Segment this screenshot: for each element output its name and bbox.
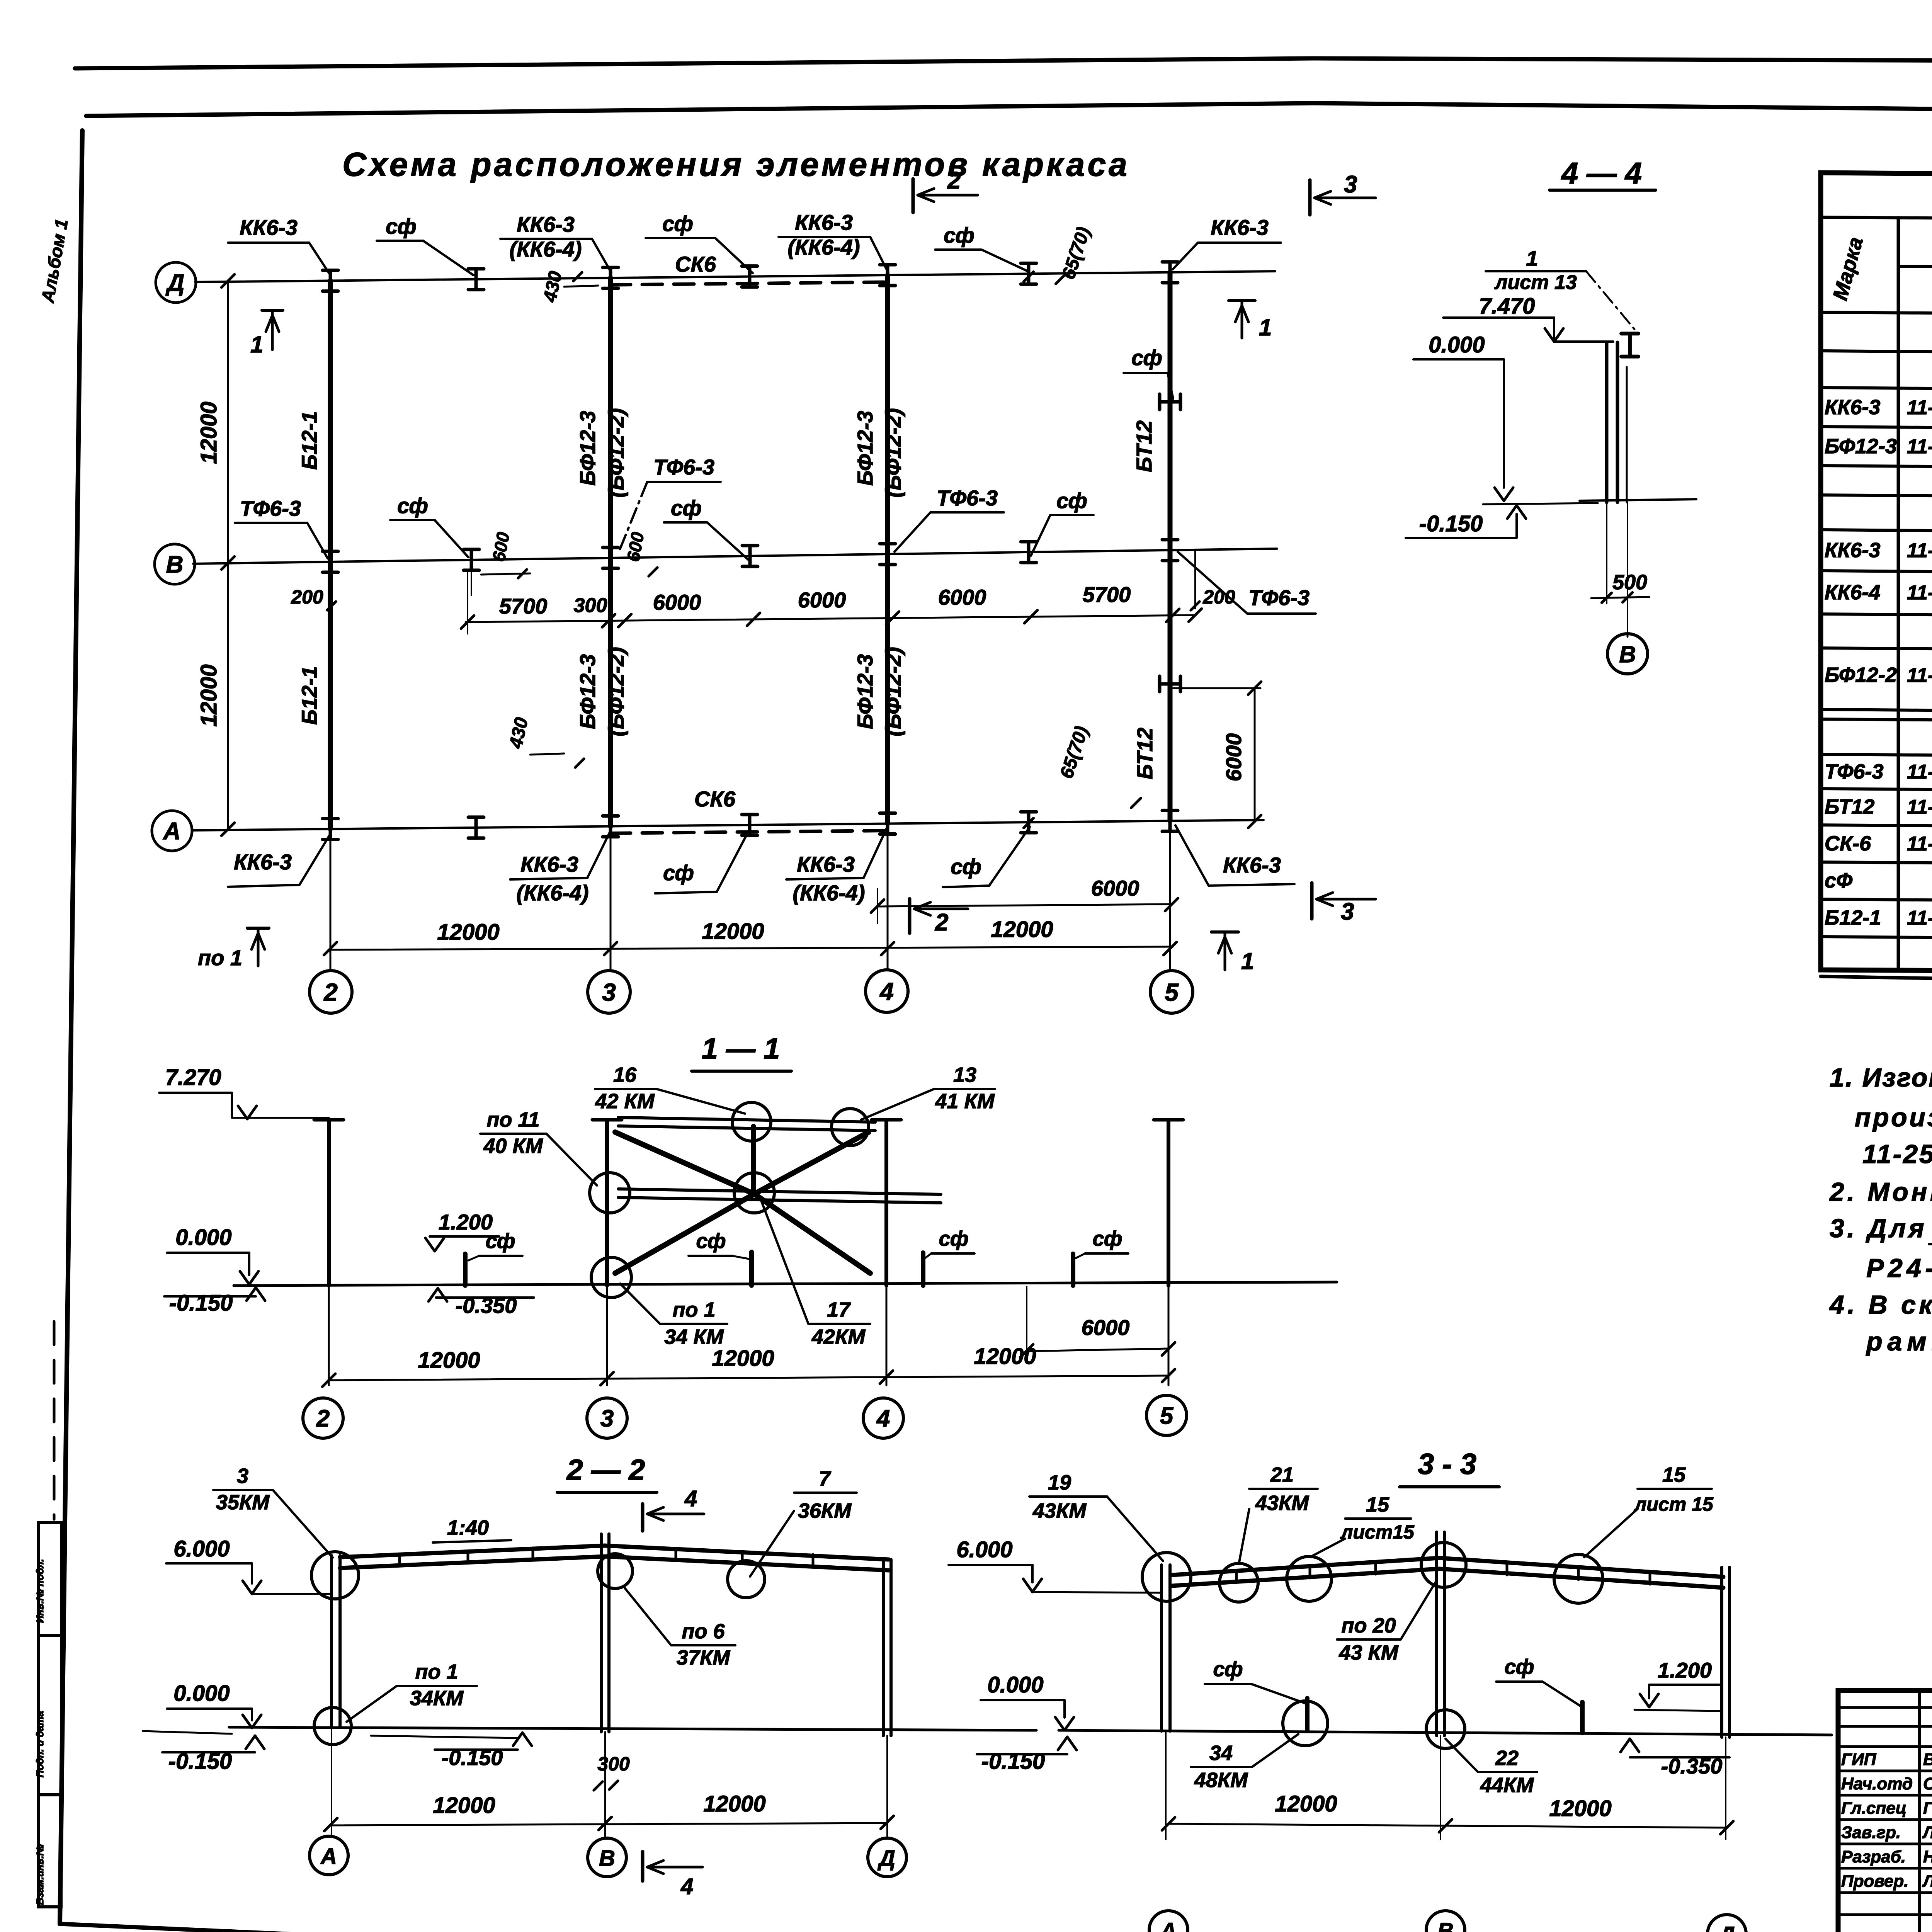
- column 4-4 (double line): [1605, 342, 1609, 502]
- svg-text:сф: сф: [696, 1230, 726, 1253]
- svg-text:сф: сф: [1131, 345, 1162, 370]
- svg-text:11-2537-28КМ: 11-2537-28КМ: [1907, 435, 1932, 458]
- dimension 12000x2 (2-2): [331, 1823, 887, 1825]
- svg-text:(КК6-4): (КК6-4): [509, 237, 582, 261]
- column Д (3-3): [1720, 1567, 1723, 1737]
- axis bubble Д (2-2): [868, 1838, 906, 1877]
- section mark 2 top: [912, 179, 915, 213]
- element table outer bottom edge: [1821, 976, 1932, 991]
- column bubble 5: [1150, 971, 1193, 1013]
- section mark 3 top: [1308, 180, 1312, 215]
- svg-text:сф: сф: [944, 223, 975, 247]
- svg-text:6000: 6000: [938, 585, 986, 609]
- svg-text:Р24- 1-6 -300, IV-снегового р: Р24- 1-6 -300, IV-снегового района-Р24-1…: [1866, 1253, 1932, 1283]
- axis bubble 5 (1-1): [1146, 1395, 1187, 1435]
- axis В line: [193, 549, 1277, 564]
- svg-text:300: 300: [597, 1753, 630, 1775]
- svg-text:34 КМ: 34 КМ: [664, 1325, 724, 1349]
- column 2 extension to dimension line: [330, 829, 332, 971]
- svg-text:В: В: [1619, 641, 1636, 667]
- axis Д bubble: [156, 262, 196, 303]
- svg-text:12000: 12000: [418, 1348, 480, 1373]
- section 1-1 column 4: [884, 1120, 888, 1286]
- svg-text:4. В скобках обозначены ма: 4. В скобках обозначены марки конструкци…: [1829, 1290, 1932, 1320]
- column 3 extension to dimension line: [610, 826, 612, 971]
- svg-text:(КК6-4): (КК6-4): [793, 881, 865, 905]
- svg-text:34: 34: [1209, 1742, 1233, 1765]
- section 1-1 column 5: [1167, 1120, 1170, 1286]
- stamp outer box: [1838, 1690, 1932, 1932]
- node circle top middle: [732, 1102, 771, 1141]
- axis bubble 3 (1-1): [587, 1398, 627, 1438]
- element table header mid rule: [1898, 266, 1932, 271]
- svg-text:сф: сф: [663, 861, 694, 885]
- svg-text:7.470: 7.470: [1479, 294, 1535, 319]
- braced bay middle beam: [618, 1189, 941, 1194]
- axis В bubble (4-4): [1607, 634, 1648, 674]
- svg-text:Лукьяненко: Лукьяненко: [1922, 1823, 1932, 1842]
- svg-text:1 — 1: 1 — 1: [702, 1032, 780, 1065]
- ground line (2-2): [229, 1727, 1036, 1730]
- svg-text:0.000: 0.000: [1429, 332, 1485, 357]
- svg-text:-0.150: -0.150: [1419, 511, 1483, 536]
- svg-text:КК6-3: КК6-3: [797, 852, 855, 876]
- svg-text:Гейдман: Гейдман: [1923, 1799, 1932, 1818]
- node circle ridge right (2-2): [728, 1561, 765, 1598]
- svg-text:3: 3: [1344, 171, 1357, 198]
- axis bubble В (2-2): [588, 1838, 626, 1877]
- column Д (2-2): [882, 1560, 885, 1736]
- node circle В bottom (3-3): [1426, 1710, 1465, 1748]
- svg-text:по 1: по 1: [415, 1660, 458, 1684]
- svg-text:5: 5: [1165, 978, 1179, 1006]
- svg-text:сф: сф: [671, 496, 702, 520]
- svg-text:11-2537-19КМ: 11-2537-19КМ: [1907, 833, 1932, 855]
- svg-text:200: 200: [291, 586, 323, 608]
- svg-text:(КК6-4): (КК6-4): [787, 235, 860, 259]
- svg-text:37КМ: 37КМ: [677, 1646, 730, 1669]
- svg-text:5700: 5700: [499, 594, 548, 618]
- svg-text:сф: сф: [386, 214, 417, 238]
- svg-text:2 — 2: 2 — 2: [566, 1454, 645, 1486]
- left margin fold dashes: [53, 1321, 56, 1519]
- svg-text:по 11: по 11: [486, 1108, 539, 1131]
- svg-text:Д: Д: [877, 1846, 895, 1871]
- svg-text:сф: сф: [1056, 488, 1087, 513]
- svg-text:КК6-3: КК6-3: [1223, 853, 1281, 877]
- svg-text:1: 1: [1259, 315, 1272, 340]
- svg-text:Провер.: Провер.: [1841, 1872, 1908, 1891]
- column bubble 3: [588, 971, 630, 1013]
- svg-text:КК6-3: КК6-3: [240, 215, 298, 240]
- node circle 15 right (3-3): [1554, 1554, 1603, 1603]
- section mark 3 bottom: [1310, 883, 1314, 919]
- svg-text:Б12-1: Б12-1: [297, 666, 321, 725]
- node circle А top (3-3): [1142, 1553, 1191, 1601]
- svg-text:КК6-3: КК6-3: [234, 850, 292, 874]
- sheet frame top line 1: [75, 58, 1932, 68]
- connector СК6 dashed on axis А: [611, 831, 888, 833]
- svg-text:Лукьяненко: Лукьяненко: [1922, 1872, 1932, 1891]
- svg-text:БФ12-3: БФ12-3: [853, 654, 877, 729]
- plan dimension 6000 col4-col5: [878, 904, 1172, 906]
- svg-text:сф: сф: [662, 211, 693, 236]
- svg-text:1: 1: [250, 332, 263, 357]
- sheet frame top line 2: [86, 103, 1932, 116]
- svg-text:12000: 12000: [702, 919, 764, 944]
- beam БФ12-3 on column line 4: [885, 275, 890, 823]
- node circle 34 (3-3): [1283, 1701, 1328, 1746]
- node circle 15 left (3-3): [1287, 1556, 1332, 1601]
- svg-text:11-2537-30КМ: 11-2537-30КМ: [1907, 907, 1932, 929]
- svg-text:11-2537- 28КМ: 11-2537- 28КМ: [1907, 664, 1932, 687]
- svg-text:В: В: [1437, 1918, 1454, 1932]
- svg-text:5: 5: [1160, 1403, 1174, 1429]
- column 4 extension to dimension line: [887, 824, 889, 970]
- svg-text:0.000: 0.000: [173, 1681, 230, 1706]
- svg-text:(КК6-4): (КК6-4): [516, 881, 588, 905]
- roof beam segment ticks (2-2): [398, 1554, 401, 1565]
- node circle top right: [832, 1109, 869, 1146]
- svg-text:Разраб.: Разраб.: [1841, 1847, 1906, 1866]
- svg-text:2. Монтажные узлы приняты п: 2. Монтажные узлы приняты по шифру 11-25…: [1829, 1177, 1932, 1207]
- section 3-3 roof beam: [1172, 1558, 1723, 1577]
- svg-text:КК6-3: КК6-3: [795, 210, 853, 235]
- svg-text:КК6-3: КК6-3: [1825, 396, 1880, 419]
- node circle А top (2-2): [311, 1552, 359, 1599]
- svg-text:0.000: 0.000: [175, 1225, 231, 1250]
- section 2-2 roof beam: [340, 1546, 889, 1560]
- svg-text:БФ12-2: БФ12-2: [1825, 663, 1897, 687]
- section mark 2 bottom: [908, 899, 912, 933]
- svg-text:А: А: [163, 818, 181, 845]
- svg-text:2: 2: [316, 1405, 330, 1432]
- axis bubble А (3-3): [1149, 1911, 1188, 1932]
- svg-text:13: 13: [953, 1063, 976, 1087]
- svg-text:3. Для II и III снеговых рай: 3. Для II и III снеговых районов приняты…: [1830, 1214, 1932, 1243]
- section mark 4 bottom (2-2): [641, 1852, 645, 1881]
- svg-text:12000: 12000: [437, 920, 499, 945]
- roof beam segment ticks (3-3): [1235, 1572, 1238, 1583]
- svg-text:12000: 12000: [991, 917, 1053, 942]
- I symbol at top of 4-4 column: [1621, 333, 1638, 356]
- node circle 21 (3-3): [1219, 1563, 1258, 1602]
- node circle В top (3-3): [1421, 1543, 1466, 1587]
- svg-text:12000: 12000: [433, 1793, 495, 1818]
- svg-text:200: 200: [1202, 586, 1235, 608]
- node circle center: [734, 1173, 774, 1213]
- element table outer border: [1821, 173, 1932, 975]
- svg-text:Б12-1: Б12-1: [1825, 906, 1881, 929]
- svg-text:12000: 12000: [1549, 1796, 1611, 1821]
- dimension 12000x2 (3-3): [1168, 1824, 1727, 1828]
- svg-text:1.200: 1.200: [1658, 1658, 1712, 1682]
- svg-text:17: 17: [827, 1298, 851, 1321]
- svg-text:12000: 12000: [974, 1344, 1036, 1369]
- I-beam symbol on column 5 between В and А: [1160, 676, 1180, 692]
- svg-text:1.200: 1.200: [439, 1210, 493, 1234]
- svg-text:Б12-1: Б12-1: [297, 411, 321, 470]
- svg-text:40 КМ: 40 КМ: [483, 1134, 543, 1158]
- beam БТ12 on column line 5: [1168, 272, 1173, 821]
- svg-text:12000: 12000: [712, 1346, 774, 1371]
- vertical dimension line 12000+12000: [227, 281, 229, 829]
- svg-text:12000: 12000: [1275, 1791, 1337, 1816]
- svg-text:КК6-4: КК6-4: [1825, 581, 1880, 604]
- vertical dimension 6000 right of col5: [1173, 687, 1260, 689]
- braced bay top beam: [618, 1117, 875, 1122]
- section mark 1 upper-right near col5: [1229, 299, 1255, 302]
- svg-text:11-2537-00ПЗ КМ.: 11-2537-00ПЗ КМ.: [1862, 1139, 1932, 1169]
- svg-text:Подп. и дата: Подп. и дата: [34, 1711, 46, 1777]
- svg-text:1: 1: [1526, 246, 1538, 270]
- svg-text:(БФ12-2): (БФ12-2): [881, 647, 905, 736]
- svg-text:сф: сф: [397, 493, 428, 518]
- svg-text:ТФ6-3: ТФ6-3: [653, 455, 714, 479]
- svg-text:КК6-3: КК6-3: [517, 212, 575, 236]
- svg-text:3: 3: [602, 978, 616, 1006]
- svg-text:35КМ: 35КМ: [216, 1491, 270, 1514]
- svg-text:500: 500: [1612, 571, 1647, 594]
- svg-text:6000: 6000: [1082, 1315, 1130, 1340]
- svg-text:А: А: [1160, 1918, 1177, 1932]
- node circle А bottom (2-2): [314, 1708, 351, 1745]
- svg-text:3: 3: [1341, 898, 1354, 925]
- svg-text:3: 3: [600, 1405, 614, 1432]
- svg-text:3: 3: [237, 1464, 248, 1488]
- svg-text:лист 13: лист 13: [1494, 271, 1577, 294]
- svg-text:Вайсбанд: Вайсбанд: [1923, 1750, 1932, 1769]
- element table horizontal rules: [1821, 217, 1932, 224]
- ground line 4-4: [1483, 503, 1598, 504]
- svg-text:7.270: 7.270: [165, 1065, 221, 1090]
- svg-text:44КМ: 44КМ: [1480, 1774, 1534, 1797]
- svg-text:СК6: СК6: [675, 252, 716, 276]
- axis В bubble: [155, 544, 195, 584]
- svg-text:43КМ: 43КМ: [1032, 1499, 1087, 1522]
- column 5 extension to dimension line: [1169, 821, 1171, 971]
- svg-text:11-2537-26КМ: 11-2537-26КМ: [1907, 539, 1932, 562]
- svg-text:лист15: лист15: [1340, 1521, 1415, 1543]
- svg-text:Д: Д: [165, 270, 185, 296]
- svg-text:12000: 12000: [196, 401, 221, 464]
- svg-text:300: 300: [574, 594, 607, 617]
- svg-text:16: 16: [613, 1063, 637, 1087]
- svg-text:(БФ12-2): (БФ12-2): [604, 647, 628, 736]
- dimension 500 (4-4): [1606, 502, 1607, 604]
- svg-text:34КМ: 34КМ: [410, 1687, 464, 1710]
- svg-text:19: 19: [1048, 1471, 1071, 1494]
- svg-text:сф: сф: [1213, 1658, 1243, 1681]
- svg-text:БФ12-3: БФ12-3: [1825, 435, 1897, 458]
- beam БФ12-3 on column line 3: [608, 278, 613, 826]
- ground line (3-3): [1059, 1730, 1832, 1735]
- svg-text:4: 4: [680, 1874, 693, 1899]
- svg-text:КК6-3: КК6-3: [1825, 539, 1880, 562]
- axis bubble 2 (1-1): [303, 1398, 343, 1438]
- svg-text:5700: 5700: [1083, 582, 1131, 607]
- svg-text:2: 2: [323, 978, 338, 1006]
- svg-text:по 6: по 6: [682, 1620, 725, 1643]
- sheet frame bottom line: [60, 1924, 1838, 1932]
- column В (2-2): [600, 1534, 603, 1732]
- svg-text:21: 21: [1270, 1463, 1294, 1486]
- svg-text:15: 15: [1366, 1493, 1389, 1516]
- axis bubble 4 (1-1): [863, 1398, 903, 1438]
- axis А bubble: [152, 811, 192, 851]
- svg-text:6000: 6000: [1221, 733, 1246, 782]
- svg-text:4: 4: [879, 978, 894, 1005]
- svg-text:Нач.отд: Нач.отд: [1841, 1774, 1913, 1793]
- svg-text:В: В: [599, 1846, 615, 1871]
- svg-text:11-2537-29КМ: 11-2537-29КМ: [1907, 761, 1932, 783]
- axis bubble А (2-2): [310, 1836, 348, 1875]
- svg-text:сф: сф: [1504, 1655, 1534, 1679]
- svg-text:Инв.№ подл.: Инв.№ подл.: [34, 1559, 46, 1623]
- svg-text:сф: сф: [1092, 1227, 1122, 1250]
- svg-text:43КМ: 43КМ: [1255, 1492, 1309, 1515]
- bracing diagonal 1: [615, 1132, 870, 1273]
- svg-text:-0.150: -0.150: [981, 1749, 1045, 1774]
- svg-text:12000: 12000: [703, 1791, 765, 1816]
- svg-text:Взам.инв.№: Взам.инв.№: [34, 1844, 46, 1905]
- plan inner dimension line 5700-300-6000-6000-6000-5700-200: [466, 615, 1196, 622]
- svg-text:22: 22: [1495, 1747, 1519, 1770]
- svg-text:(БФ12-2): (БФ12-2): [881, 408, 905, 497]
- svg-text:БФ12-3: БФ12-3: [853, 411, 877, 486]
- stamp personnel row rules: [1838, 1706, 1932, 1709]
- svg-text:ГИП: ГИП: [1841, 1750, 1877, 1769]
- svg-text:сф: сф: [951, 854, 981, 879]
- svg-text:42КМ: 42КМ: [811, 1325, 866, 1349]
- svg-text:рамы Р-24-1-6- 400.: рамы Р-24-1-6- 400.: [1866, 1327, 1932, 1356]
- svg-text:1:40: 1:40: [447, 1516, 489, 1539]
- sheet frame left line: [60, 131, 82, 1924]
- I-beam symbols on axis В: [323, 551, 338, 572]
- section 1-1 column 2: [327, 1120, 331, 1286]
- bracing diagonal 2: [615, 1132, 869, 1273]
- axis А line: [192, 820, 1264, 830]
- svg-text:12000: 12000: [196, 664, 221, 726]
- axis bubble В (3-3): [1426, 1911, 1465, 1932]
- plan bottom dimension line 12000 x3: [328, 947, 1173, 950]
- svg-text:0.000: 0.000: [987, 1672, 1043, 1697]
- section mark 1 upper-left: [262, 309, 283, 312]
- svg-text:1: 1: [1241, 948, 1254, 974]
- svg-text:ТФ6-3: ТФ6-3: [240, 496, 301, 520]
- svg-text:Д: Д: [1717, 1922, 1735, 1932]
- stamp personnel column rules: [1918, 1690, 1921, 1932]
- svg-text:Набиев: Набиев: [1923, 1847, 1932, 1866]
- I-beam symbols on axis А: [323, 819, 338, 840]
- svg-text:сФ: сФ: [1825, 869, 1852, 892]
- section mark 4 top (2-2): [641, 1504, 645, 1531]
- svg-text:СК6: СК6: [694, 787, 736, 811]
- svg-text:В: В: [166, 551, 184, 578]
- section mark 1 lower-right: [1211, 930, 1238, 934]
- svg-text:2: 2: [935, 909, 948, 936]
- svg-text:КК6-3: КК6-3: [1211, 215, 1269, 240]
- svg-text:15: 15: [1662, 1463, 1686, 1486]
- svg-text:(БФ12-2): (БФ12-2): [604, 408, 628, 497]
- svg-text:1. Изготовление, транспортиров: 1. Изготовление, транспортировку и монта…: [1830, 1063, 1932, 1092]
- section 1-1 ground line: [234, 1282, 1337, 1286]
- column А (2-2): [330, 1556, 333, 1726]
- svg-text:2: 2: [947, 167, 961, 194]
- svg-text:4: 4: [684, 1486, 697, 1511]
- I-beam symbol on column 5 between Д and В: [1160, 394, 1180, 410]
- svg-text:6000: 6000: [1091, 876, 1139, 900]
- svg-text:Зав.гр.: Зав.гр.: [1841, 1823, 1901, 1842]
- svg-text:41 КМ: 41 КМ: [935, 1090, 995, 1113]
- svg-text:4 — 4: 4 — 4: [1561, 156, 1642, 190]
- left margin binding boxes: [38, 1522, 62, 1636]
- svg-text:БТ12: БТ12: [1825, 795, 1874, 818]
- svg-text:сф: сф: [939, 1227, 968, 1250]
- svg-text:6000: 6000: [653, 590, 701, 614]
- svg-text:3 - 3: 3 - 3: [1418, 1448, 1476, 1481]
- svg-text:6.000: 6.000: [956, 1537, 1012, 1562]
- svg-text:11-2537-26КМ: 11-2537-26КМ: [1907, 582, 1932, 604]
- svg-text:по 1: по 1: [672, 1298, 715, 1321]
- svg-text:36КМ: 36КМ: [798, 1499, 852, 1522]
- bracing vertical strut: [751, 1126, 756, 1189]
- node circle bottom left: [591, 1257, 631, 1298]
- svg-text:А: А: [320, 1844, 337, 1869]
- svg-text:лист 15: лист 15: [1634, 1493, 1714, 1515]
- svg-text:ТФ6-3: ТФ6-3: [1825, 760, 1883, 783]
- svg-text:производить в соответствии: производить в соответствии с указаниями …: [1855, 1103, 1932, 1132]
- svg-text:по 1: по 1: [198, 946, 242, 970]
- svg-text:БТ12: БТ12: [1132, 420, 1156, 472]
- svg-text:КК6-3: КК6-3: [520, 852, 578, 876]
- section 1-1 column 3: [605, 1120, 609, 1286]
- svg-text:ТФ6-3: ТФ6-3: [1248, 585, 1310, 610]
- beam Б12-1 on column line 2: [328, 281, 333, 829]
- svg-text:6000: 6000: [798, 588, 846, 612]
- svg-text:11-2537-30КМ: 11-2537-30КМ: [1907, 796, 1932, 818]
- svg-text:6.000: 6.000: [173, 1536, 230, 1561]
- svg-text:БТ12: БТ12: [1133, 728, 1157, 779]
- I-beam symbols on axis Д: [323, 270, 338, 291]
- svg-text:Схема расположения элементов к: Схема расположения элементов каркаса: [342, 146, 1130, 183]
- svg-text:42 КМ: 42 КМ: [595, 1090, 655, 1113]
- column bubble 2: [310, 971, 352, 1013]
- svg-text:сф: сф: [485, 1230, 515, 1253]
- column А (3-3): [1160, 1565, 1163, 1731]
- element table vertical rules: [1897, 218, 1900, 971]
- node circle left middle: [590, 1173, 630, 1213]
- svg-text:7: 7: [819, 1467, 832, 1490]
- svg-text:Онуфриенко: Онуфриенко: [1923, 1774, 1932, 1793]
- column bubble 4: [866, 970, 908, 1012]
- svg-text:БФ12-3: БФ12-3: [575, 654, 600, 729]
- svg-text:11-2537-26КМ: 11-2537-26КМ: [1907, 396, 1932, 419]
- node circle В top (2-2): [598, 1554, 633, 1588]
- svg-text:-0.150: -0.150: [169, 1291, 233, 1316]
- svg-text:по 20: по 20: [1341, 1614, 1396, 1637]
- svg-text:ТФ6-3: ТФ6-3: [937, 486, 998, 510]
- svg-text:БФ12-3: БФ12-3: [575, 411, 600, 486]
- connector СК6 dashed on axis Д: [611, 282, 888, 285]
- dimension line 12000 x3 (1-1): [329, 1376, 1168, 1380]
- svg-text:48КМ: 48КМ: [1194, 1769, 1248, 1792]
- axis bubble Д (3-3): [1708, 1915, 1746, 1932]
- svg-text:43 КМ: 43 КМ: [1338, 1641, 1398, 1664]
- svg-text:4: 4: [876, 1405, 890, 1432]
- column В (3-3): [1435, 1532, 1438, 1736]
- svg-text:СК-6: СК-6: [1825, 832, 1871, 855]
